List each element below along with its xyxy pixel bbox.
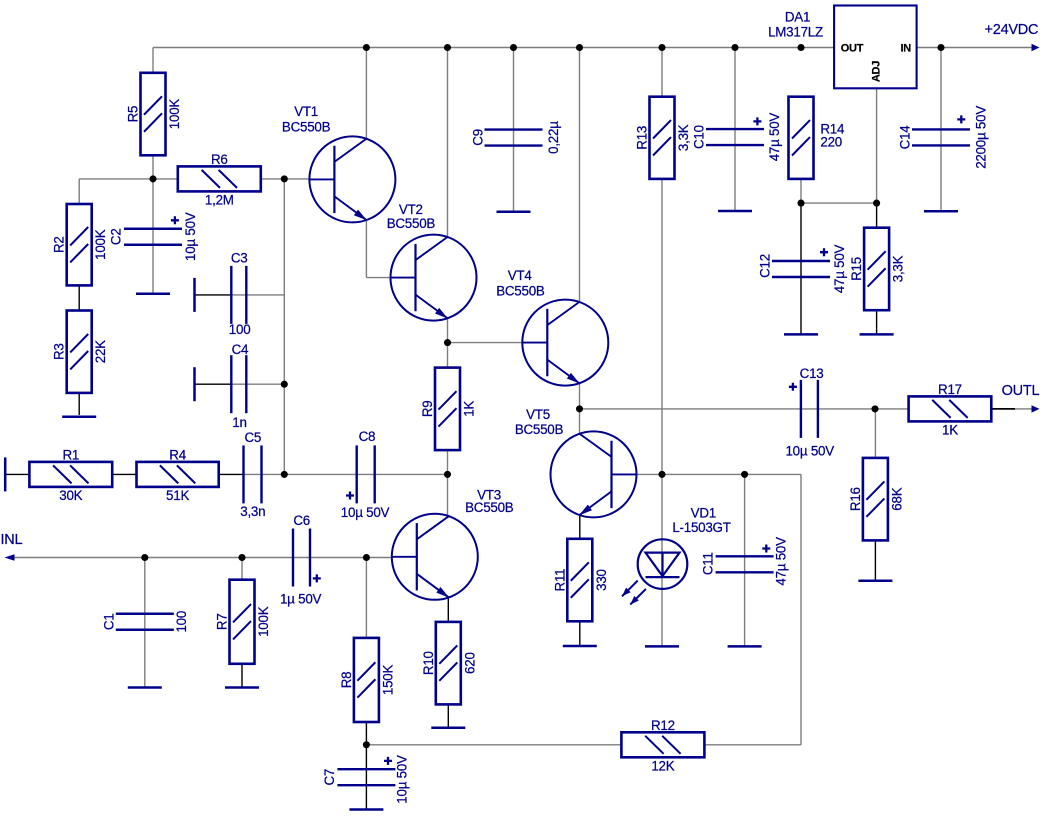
svg-text:R2: R2 xyxy=(52,236,67,253)
svg-text:47µ 50V: 47µ 50V xyxy=(767,113,782,162)
svg-text:DA1: DA1 xyxy=(785,9,810,24)
svg-text:C13: C13 xyxy=(800,366,824,381)
svg-text:1,2M: 1,2M xyxy=(205,193,234,208)
svg-text:C8: C8 xyxy=(359,429,376,444)
svg-text:BC550B: BC550B xyxy=(465,500,514,515)
svg-text:10µ 50V: 10µ 50V xyxy=(341,505,390,520)
svg-text:+24VDC: +24VDC xyxy=(985,22,1039,38)
svg-text:30K: 30K xyxy=(59,488,82,503)
svg-text:INL: INL xyxy=(1,532,23,548)
svg-text:R15: R15 xyxy=(849,257,864,281)
svg-text:C14: C14 xyxy=(898,125,913,150)
svg-text:BC550B: BC550B xyxy=(515,422,564,437)
svg-text:1K: 1K xyxy=(462,401,477,417)
svg-text:1K: 1K xyxy=(942,423,958,438)
svg-text:R12: R12 xyxy=(651,718,675,733)
svg-text:1µ 50V: 1µ 50V xyxy=(280,592,322,607)
svg-text:3,3n: 3,3n xyxy=(240,504,265,519)
svg-text:BC550B: BC550B xyxy=(496,284,545,299)
svg-text:VT2: VT2 xyxy=(399,202,423,217)
svg-text:R9: R9 xyxy=(420,401,435,418)
svg-text:R17: R17 xyxy=(938,382,962,397)
svg-text:1n: 1n xyxy=(232,415,246,430)
svg-text:L-1503GT: L-1503GT xyxy=(672,520,730,535)
svg-text:3,3K: 3,3K xyxy=(676,124,691,151)
svg-text:R10: R10 xyxy=(421,651,436,675)
svg-text:3,3K: 3,3K xyxy=(891,255,906,282)
svg-text:C4: C4 xyxy=(232,342,249,357)
svg-text:100: 100 xyxy=(229,322,251,337)
svg-text:C2: C2 xyxy=(108,228,123,245)
svg-text:C11: C11 xyxy=(701,552,716,575)
svg-text:C10: C10 xyxy=(692,125,707,149)
svg-text:OUT: OUT xyxy=(841,43,864,55)
svg-text:100K: 100K xyxy=(93,229,108,260)
svg-text:10µ 50V: 10µ 50V xyxy=(785,444,834,459)
svg-text:51K: 51K xyxy=(166,488,189,503)
svg-text:10µ 50V: 10µ 50V xyxy=(183,212,198,261)
svg-text:R1: R1 xyxy=(62,447,79,462)
svg-text:R4: R4 xyxy=(169,447,186,462)
svg-text:47µ 50V: 47µ 50V xyxy=(832,244,847,293)
svg-text:150K: 150K xyxy=(380,664,395,695)
svg-text:620: 620 xyxy=(462,652,477,674)
svg-text:220: 220 xyxy=(820,135,842,150)
svg-text:VT4: VT4 xyxy=(508,268,533,283)
svg-text:R7: R7 xyxy=(215,613,230,630)
svg-text:R3: R3 xyxy=(52,343,67,360)
svg-text:12K: 12K xyxy=(651,759,674,774)
svg-text:VD1: VD1 xyxy=(691,505,716,520)
svg-text:R11: R11 xyxy=(552,569,567,592)
svg-text:330: 330 xyxy=(594,569,609,591)
svg-text:68K: 68K xyxy=(889,487,904,510)
svg-text:R16: R16 xyxy=(848,487,863,511)
svg-text:C3: C3 xyxy=(231,250,248,265)
svg-text:C7: C7 xyxy=(322,769,337,786)
svg-text:ADJ: ADJ xyxy=(870,61,882,82)
svg-text:100: 100 xyxy=(174,611,189,633)
svg-text:R13: R13 xyxy=(635,126,650,150)
svg-text:C5: C5 xyxy=(244,430,261,445)
svg-text:2200µ 50V: 2200µ 50V xyxy=(974,106,989,169)
svg-text:47µ 50V: 47µ 50V xyxy=(774,537,789,586)
svg-text:BC550B: BC550B xyxy=(282,120,331,135)
svg-text:R5: R5 xyxy=(126,106,141,123)
svg-text:10µ 50V: 10µ 50V xyxy=(395,755,410,804)
svg-text:100K: 100K xyxy=(256,606,271,637)
svg-text:OUTL: OUTL xyxy=(1002,383,1040,399)
svg-text:LM317LZ: LM317LZ xyxy=(768,25,823,40)
svg-text:C12: C12 xyxy=(758,254,773,278)
svg-text:R8: R8 xyxy=(339,672,354,689)
svg-text:100K: 100K xyxy=(167,99,182,130)
svg-text:C9: C9 xyxy=(471,129,486,146)
svg-text:VT5: VT5 xyxy=(526,407,550,422)
svg-text:C6: C6 xyxy=(293,513,310,528)
svg-text:22K: 22K xyxy=(93,340,108,363)
svg-text:VT1: VT1 xyxy=(294,104,318,119)
svg-text:BC550B: BC550B xyxy=(387,216,436,231)
svg-text:0,22µ: 0,22µ xyxy=(546,121,561,154)
svg-text:IN: IN xyxy=(901,43,912,55)
svg-text:C1: C1 xyxy=(101,613,116,630)
svg-text:R6: R6 xyxy=(211,152,228,167)
